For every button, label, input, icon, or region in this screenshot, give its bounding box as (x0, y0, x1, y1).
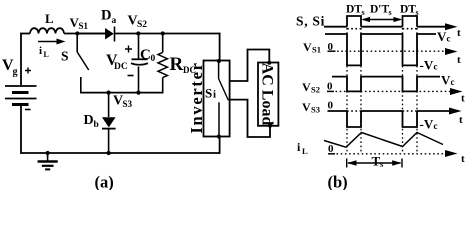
svg-text:DC: DC (114, 62, 128, 72)
svg-text:L: L (44, 50, 49, 59)
svg-text:L: L (45, 11, 54, 26)
svg-text:0: 0 (328, 100, 334, 112)
S axis dotted segments under pulses (347, 28, 417, 30)
wire: RDC top lead (162, 34, 164, 53)
svg-text:(b): (b) (328, 173, 348, 191)
switch Si upper contact (218, 61, 220, 79)
node: RDC top junction (161, 31, 165, 35)
capacitor C0 minus sign (128, 75, 134, 77)
wire: diode Db to bottom wire (108, 129, 110, 153)
svg-text:V: V (302, 100, 311, 114)
svg-text:V: V (437, 29, 447, 44)
node: AC load top connection (267, 61, 271, 65)
Vs2 waveform (332, 77, 440, 92)
Vs1 axis arrowhead (445, 48, 458, 55)
svg-text:AC Load: AC Load (259, 63, 276, 126)
svg-text:R: R (170, 54, 184, 75)
wire: diode Da to node Vs2 and on to RDC node (115, 33, 220, 35)
svg-text:S: S (61, 49, 69, 64)
capacitor C0 (132, 58, 148, 60)
Ts interval right tick (401, 159, 403, 168)
svg-text:V: V (302, 80, 311, 94)
iL waveform (324, 133, 443, 148)
wire: bottom wire (21, 152, 220, 154)
svg-text:-V: -V (420, 117, 434, 132)
Vs2 axis arrowhead (450, 88, 463, 95)
svg-text:b: b (94, 120, 99, 130)
node VS3 (107, 91, 111, 95)
svg-text:i: i (213, 89, 216, 101)
wire: top wire Vs1 to diode Da (77, 33, 105, 35)
svg-text:S3: S3 (123, 99, 133, 109)
svg-text:D′T: D′T (370, 4, 390, 16)
AC load box (258, 63, 278, 126)
wire: inverter bottom to bottom wire (219, 137, 221, 154)
node: inverter top entry (217, 59, 221, 63)
svg-text:D: D (84, 113, 94, 128)
timing line x3 (402, 28, 404, 154)
S pulse 1 (347, 16, 361, 27)
svg-text:c: c (451, 77, 455, 87)
wire: mid wire (node VS3 rail) (80, 92, 163, 94)
node: AC load bottom connection (268, 124, 272, 128)
S axis arrowhead (445, 23, 458, 30)
timing line x2 (360, 28, 362, 154)
Ts interval left tick (346, 159, 348, 168)
svg-text:t: t (457, 54, 461, 66)
svg-text:c: c (434, 121, 438, 131)
wire: VS3 node to diode Db (108, 93, 110, 117)
iL axis arrowhead (445, 150, 458, 157)
wire: inverter to AC load bottom link (230, 100, 270, 137)
svg-text:0: 0 (151, 54, 156, 64)
wire: left vertical from top wire to battery (20, 34, 22, 86)
svg-text:t: t (461, 93, 465, 105)
capacitor C0 plus sign (125, 46, 132, 53)
wire: inverter to AC load top link (230, 50, 270, 82)
svg-text:S1: S1 (312, 45, 321, 55)
svg-text:t: t (457, 27, 461, 39)
Vs3 axis arrowhead (449, 108, 462, 115)
battery minus sign (25, 109, 31, 111)
node: inverter bottom exit (217, 134, 221, 138)
S axis solid segments (324, 26, 453, 28)
Vs3 axis solid segments (328, 110, 453, 112)
svg-text:DT: DT (400, 4, 416, 16)
wire: top wire corner down into inverter (219, 33, 221, 61)
Ts interval arrow (348, 162, 401, 164)
svg-text:t: t (461, 153, 465, 165)
ground (46, 151, 50, 155)
node Vs2 (136, 31, 140, 35)
iL axis dotted line (337, 153, 449, 155)
svg-text:S: S (205, 86, 212, 101)
current arrow iL (38, 41, 58, 43)
svg-text:t: t (459, 114, 463, 126)
svg-text:S1: S1 (79, 21, 89, 31)
switch S lower contact (80, 77, 82, 93)
diode Db (102, 117, 116, 127)
switch S blade (77, 52, 89, 70)
svg-text:g: g (13, 67, 18, 78)
wire: top wire from corner to inductor (20, 33, 30, 35)
svg-text:s: s (389, 8, 392, 17)
resistor RDC (158, 52, 167, 77)
battery Vg plus sign (25, 68, 31, 74)
wire: RDC bottom lead to mid wire (162, 78, 164, 94)
svg-text:D: D (101, 8, 111, 24)
Vs3 axis dotted segments (347, 110, 417, 112)
inductor L (30, 28, 64, 33)
svg-text:-V: -V (420, 58, 434, 73)
svg-text:c: c (434, 62, 438, 72)
svg-text:C: C (140, 47, 151, 63)
svg-text:s: s (362, 8, 365, 17)
svg-text:V: V (441, 73, 451, 88)
svg-text:DT: DT (346, 4, 362, 16)
switch Si blade (219, 79, 229, 101)
Vs3 waveform dips (347, 111, 417, 127)
wire: Vs2 node down to capacitor C0 (138, 34, 140, 59)
iL axis solid start (328, 153, 335, 155)
wire: capacitor C0 to mid wire (138, 67, 140, 93)
switch S upper contact (76, 34, 78, 53)
svg-text:c: c (447, 34, 451, 44)
svg-text:a: a (112, 16, 117, 26)
svg-text:L: L (302, 146, 308, 156)
node Vs1 (75, 31, 79, 35)
wire: top wire inductor to node Vs1 (64, 33, 106, 35)
Vs2 zero dotted line (336, 90, 451, 92)
timing line x4 (416, 28, 418, 154)
wire: battery bottom to bottom wire (20, 106, 22, 154)
timing line x1 (346, 28, 348, 154)
node: Db bottom junction (107, 151, 111, 155)
svg-text:S2: S2 (311, 85, 320, 95)
battery Vg (5, 85, 37, 87)
svg-text:V: V (303, 40, 312, 54)
inverter box U1 (204, 61, 230, 137)
svg-text:Inverter: Inverter (187, 61, 206, 133)
svg-text:S2: S2 (137, 20, 147, 30)
Vs1 zero line solid start (328, 50, 336, 52)
diode Da (105, 28, 114, 40)
Vs2 zero line solid start (327, 90, 334, 92)
Vs1 zero dotted line (337, 50, 448, 52)
node: C0 bottom junction (136, 91, 140, 95)
svg-text:(a): (a) (95, 173, 114, 191)
S pulse 2 (403, 16, 418, 27)
svg-text:i: i (39, 45, 42, 57)
D'Ts interval arrow (363, 19, 401, 21)
svg-text:S, Si: S, Si (296, 14, 325, 29)
switch Si lower contact (218, 102, 220, 136)
svg-text:S3: S3 (311, 105, 320, 115)
Vs1 waveform (325, 34, 436, 65)
